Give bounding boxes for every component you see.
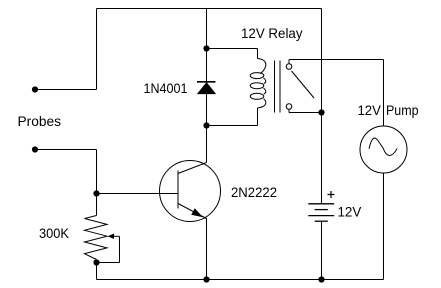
node coil top junction dot <box>203 45 209 51</box>
node coil bottom junction dot <box>203 122 209 128</box>
wire base node to transistor base <box>97 193 179 195</box>
wire coil bottom branch <box>207 108 258 126</box>
wire coil top branch <box>207 49 258 59</box>
wiper arrowhead <box>108 234 115 239</box>
wire probe2 down to base node <box>96 150 98 194</box>
node probe1 dot <box>32 86 38 92</box>
svg-text:12V: 12V <box>358 102 382 118</box>
transistor Q1 2N2222 circle <box>160 161 221 222</box>
wire NO contact stub <box>288 60 290 64</box>
relay K1 coil loop 2 <box>250 83 264 89</box>
relay K1 switch arm <box>292 71 315 98</box>
wire pump bottom lead <box>383 173 385 280</box>
pump M1 sine wave <box>369 138 397 155</box>
wire resistor top lead <box>96 194 98 216</box>
node emitter rail junction dot <box>203 276 209 282</box>
wire right bus: top rail to battery <box>321 9 323 204</box>
transistor Q1 base bar <box>177 171 179 209</box>
wire probe1 lead <box>35 89 97 91</box>
wire top rail <box>97 8 322 10</box>
svg-text:12V Relay: 12V Relay <box>241 25 303 41</box>
wire main bus: top rail to collector <box>206 9 208 163</box>
svg-text:2N2222: 2N2222 <box>231 184 277 200</box>
wire probe2 lead <box>35 149 97 151</box>
wire wiper return <box>97 236 120 262</box>
svg-text:12V: 12V <box>338 204 362 220</box>
relay K1 coil winding connectors <box>258 59 266 109</box>
wire common contact stub <box>289 109 322 112</box>
battery BT1 plate short bottom <box>315 220 328 222</box>
wire emitter down to bottom rail <box>206 218 208 280</box>
wire NO contact to pump (horizontal) <box>289 59 384 61</box>
node base junction dot <box>93 190 99 196</box>
node battery rail junction dot <box>318 276 324 282</box>
svg-text:Pump: Pump <box>386 102 419 118</box>
battery BT1 plate long top <box>308 203 334 205</box>
svg-text:1N4001: 1N4001 <box>144 80 188 96</box>
diode D1 1N4001 cathode bar <box>197 81 216 83</box>
wire left vertical (probe1 to top rail) <box>96 9 98 90</box>
relay K1 core line left <box>274 61 276 113</box>
wire bottom rail <box>97 279 384 281</box>
node probe2 dot <box>32 146 38 152</box>
wire resistor bottom lead to bottom rail <box>96 260 98 280</box>
battery BT1 plate short <box>315 209 328 211</box>
relay K1 coil loop 3 <box>250 93 264 99</box>
wire pump top lead <box>383 60 385 127</box>
transistor Q1 emitter stroke <box>178 204 207 219</box>
wire battery bottom to rail <box>321 221 323 279</box>
relay K1 core line right <box>279 61 281 113</box>
diode D1 1N4001 triangle <box>198 83 216 94</box>
battery BT1 plus sign <box>328 191 335 198</box>
svg-text:Probes: Probes <box>18 113 62 129</box>
resistor R1 300K zigzag <box>85 216 108 260</box>
relay K1 common contact circle <box>286 104 292 110</box>
battery BT1 plate long <box>308 215 334 217</box>
wiper arrow line <box>113 235 120 237</box>
transistor Q1 collector stroke <box>178 163 207 174</box>
node resistor bottom junction dot <box>93 259 99 265</box>
relay K1 NO contact circle <box>286 64 292 70</box>
transistor Q1 emitter arrowhead <box>191 208 203 217</box>
node relay common to battery junction dot <box>318 109 324 115</box>
svg-text:300K: 300K <box>39 225 70 241</box>
relay K1 coil loop 1 <box>250 73 264 79</box>
pump M1 circle <box>360 126 407 173</box>
